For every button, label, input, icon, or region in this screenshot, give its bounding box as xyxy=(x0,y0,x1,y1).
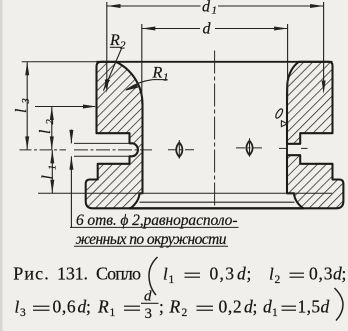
vertical axis centerline xyxy=(214,51,216,208)
svg-text:R: R xyxy=(97,297,109,317)
svg-text:d: d xyxy=(144,289,152,305)
svg-text:2: 2 xyxy=(182,307,188,319)
svg-text:1: 1 xyxy=(110,307,116,319)
horizontal hole centerline xyxy=(20,148,308,150)
left section body xyxy=(86,62,143,209)
dimension l1 xyxy=(51,150,53,193)
dimension d1 xyxy=(107,5,201,7)
svg-text:d: d xyxy=(263,297,272,317)
l2 extension line with arrow at body xyxy=(35,106,95,108)
svg-text:;: ; xyxy=(342,264,347,284)
small hole lens 1 xyxy=(176,143,182,157)
svg-text:1: 1 xyxy=(163,72,169,84)
svg-text:1: 1 xyxy=(272,307,278,319)
svg-text:0,3: 0,3 xyxy=(210,264,236,284)
svg-text:Сопло: Сопло xyxy=(96,264,141,284)
svg-text:d: d xyxy=(321,297,330,317)
right section upper block xyxy=(287,62,333,144)
svg-text:1: 1 xyxy=(212,5,218,17)
svg-text:l: l xyxy=(163,265,168,284)
svg-text:l: l xyxy=(13,109,30,113)
svg-text:3: 3 xyxy=(20,307,26,319)
svg-text:3: 3 xyxy=(21,98,32,104)
svg-text:;: ; xyxy=(253,297,258,317)
svg-text:;: ; xyxy=(247,264,252,284)
svg-text:;: ; xyxy=(159,297,164,317)
svg-text:0,6: 0,6 xyxy=(53,297,77,317)
right inner wall edge across hole xyxy=(286,143,288,156)
svg-text:131.: 131. xyxy=(57,264,88,284)
dimension d xyxy=(142,28,200,30)
bore hole extension lines (left) xyxy=(74,142,130,144)
svg-text:3: 3 xyxy=(145,306,153,322)
svg-text:2: 2 xyxy=(45,119,56,125)
svg-text:Рис.: Рис. xyxy=(13,264,49,284)
svg-text:женных по окружности: женных по окружности xyxy=(76,231,227,248)
surface finish mark xyxy=(274,108,283,119)
svg-text:l: l xyxy=(269,265,274,284)
svg-text:d: d xyxy=(202,0,211,16)
svg-text:1: 1 xyxy=(169,274,175,286)
svg-text:6 отв. ϕ 2,равнорасполо-: 6 отв. ϕ 2,равнорасполо- xyxy=(76,212,238,229)
svg-text:l: l xyxy=(40,175,57,179)
svg-text:1: 1 xyxy=(48,165,59,170)
svg-text:d: d xyxy=(203,21,212,38)
dimension l2 xyxy=(51,107,53,150)
skirt inner line B xyxy=(140,201,295,203)
svg-text:d: d xyxy=(237,264,246,284)
small hole lens 2 xyxy=(246,141,252,155)
svg-text:1,5: 1,5 xyxy=(298,297,321,317)
top face line across xyxy=(22,61,97,63)
cavity floor line A xyxy=(38,192,332,194)
svg-text:2: 2 xyxy=(275,274,281,286)
svg-text:R: R xyxy=(152,65,163,82)
svg-text:R: R xyxy=(109,32,120,49)
svg-text:0,3: 0,3 xyxy=(309,264,333,284)
svg-text:;: ; xyxy=(86,297,91,317)
svg-text:l: l xyxy=(37,130,54,134)
svg-text:R: R xyxy=(169,297,181,317)
svg-text:0,2: 0,2 xyxy=(219,297,243,317)
leader line for 6 holes note xyxy=(70,130,72,144)
dimension l3 xyxy=(26,62,28,150)
bottom face line xyxy=(129,207,304,209)
svg-text:l: l xyxy=(15,298,20,317)
right section lower block xyxy=(287,155,343,208)
